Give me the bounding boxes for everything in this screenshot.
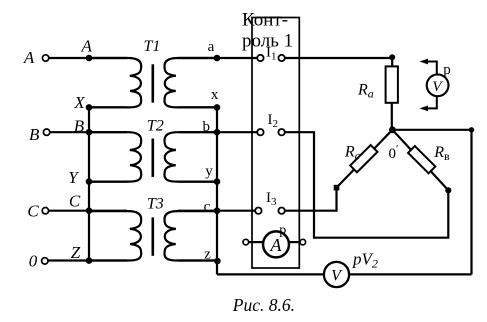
wire A row primary [49,57,127,59]
svg-text:T3: T3 [147,196,164,213]
ammeter A probe terminal right [300,239,306,245]
svg-text:z: z [204,247,211,263]
resistor Rc [350,145,377,172]
switch I3 contacts [255,208,261,214]
wire primary bus X-Z [88,107,90,260]
wire Rc diagonal [337,130,393,188]
control box Kontrol 1 [252,18,299,269]
wire X row primary [89,106,127,108]
svg-text:T2: T2 [147,118,164,135]
wire bottom rail to pV2 and right rail [217,273,472,275]
transformer T1 secondary winding [165,58,217,107]
wire c row secondary [178,210,255,212]
ammeter lead left [249,241,264,243]
node dot Rc bottom [334,185,340,191]
terminal 0 [42,258,48,264]
svg-text:p: p [279,223,286,238]
wire y row secondary [178,181,217,183]
ammeter lead right [289,241,300,243]
transformer T1 primary winding [89,58,141,107]
transformer T2 core [152,139,155,177]
wire right rail down [470,130,472,275]
node z dot [214,258,221,265]
ammeter A body [263,231,289,257]
transformer T2 secondary winding [165,132,217,181]
wire a row secondary [178,57,257,59]
svg-text:A: A [81,36,93,55]
wire Ra bottom to star point [391,103,393,130]
svg-text:B: B [74,116,85,135]
switch I1 contacts [257,55,263,61]
node X dot [86,104,93,111]
wire Z row primary (from terminal 0) [48,259,127,261]
terminal B [43,129,49,135]
svg-text:p: p [443,62,451,78]
switch I2 contacts [257,129,263,135]
transformer T3 primary winding [89,211,141,260]
voltmeter V probe body [427,74,449,96]
node Z dot [86,257,93,264]
transformer T1 core [152,64,155,102]
transformer T3 secondary winding [165,211,217,260]
node C dot [86,207,93,214]
wire I1 right to Ra top corner [285,58,392,66]
node 0' star point dot [389,126,396,133]
node x dot [214,104,221,111]
svg-text:c: c [204,199,211,215]
wire C row primary [49,210,127,212]
voltmeter pV2 body [324,262,349,287]
wire x row secondary [178,106,217,108]
voltmeter V probe top lead [425,62,437,75]
svg-text:B: B [29,125,40,144]
terminal C [42,208,48,214]
node b dot [214,129,221,136]
svg-text:Конт-: Конт- [242,9,288,30]
svg-text:C: C [27,202,39,221]
wire RB diagonal [392,130,448,191]
node B dot [86,129,93,136]
node Y dot [86,178,93,185]
svg-text:A: A [23,48,35,67]
transformer T2 primary winding [89,132,141,181]
node dot at Ra top corner [389,54,395,60]
svg-text:T1: T1 [143,38,160,55]
wire B row primary [50,131,127,133]
node y dot [214,178,221,185]
svg-text:Z: Z [71,243,81,262]
wire Y row primary [89,181,127,183]
node dot RB bottom [445,187,451,193]
wire I3 right to Rc bottom [285,188,337,211]
svg-text:Рис. 8.6.: Рис. 8.6. [232,295,295,315]
node c dot [214,207,221,214]
svg-text:y: y [205,164,213,180]
wire z row secondary [178,259,217,261]
node dot top of right rail [469,127,474,132]
wire b row secondary [178,131,257,133]
voltmeter V probe bottom lead [425,96,437,108]
wire star point to right rail [392,129,471,131]
wire I2 right to RB bottom [285,132,449,238]
svg-text:0: 0 [29,252,38,271]
svg-text:C: C [69,192,81,211]
arrowhead top probe [420,59,429,65]
ammeter A probe terminal left [243,239,249,245]
resistor Ra [386,66,398,102]
wire secondary bus x-z and down to bottom rail [216,107,218,274]
transformer T3 core [152,217,155,255]
terminal A [42,55,48,61]
svg-text:a: a [208,39,215,55]
node A dot [86,55,93,62]
resistor RB [408,146,435,173]
node a dot [214,55,221,62]
arrowhead bottom probe [420,106,429,112]
svg-text:X: X [73,93,85,112]
svg-text:b: b [203,119,211,135]
svg-text:x: x [211,87,219,103]
svg-text:Y: Y [68,168,79,187]
